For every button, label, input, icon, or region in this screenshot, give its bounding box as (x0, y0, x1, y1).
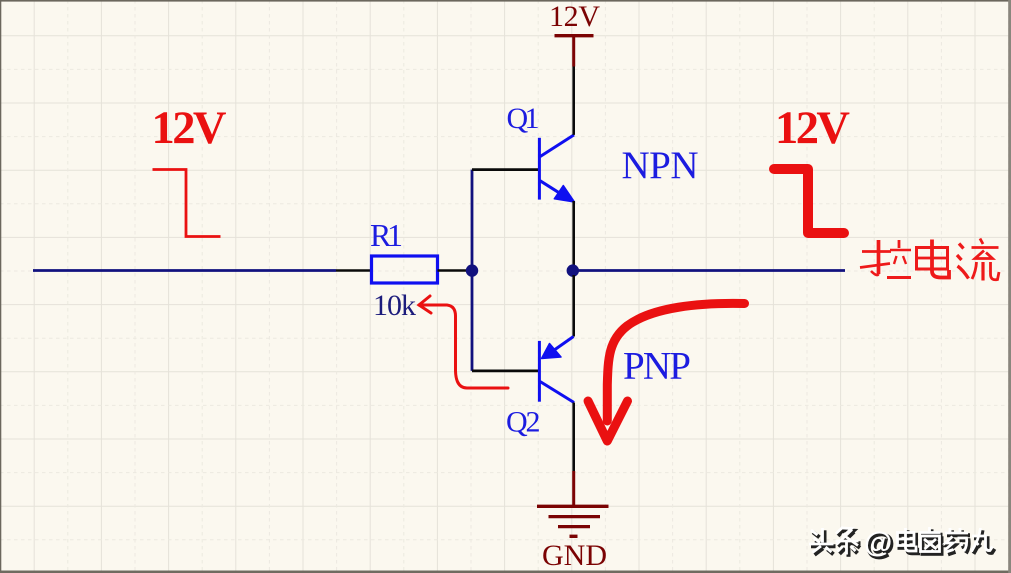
wire (336, 269, 371, 272)
wire (572, 275, 575, 337)
annotation text: 拉 (860, 240, 911, 278)
node A (base junction) (466, 264, 478, 276)
watermark: 丸 (974, 530, 995, 554)
wire (578, 269, 845, 272)
watermark: 头 (811, 530, 836, 555)
ground GND (537, 471, 609, 536)
watermark: 卤 (921, 529, 943, 554)
svg-text:Q1: Q1 (507, 102, 540, 135)
svg-text:10k: 10k (373, 289, 416, 322)
wire (472, 168, 539, 171)
annotation: output step waveform (thick) (774, 169, 844, 233)
resistor R1 (372, 256, 438, 283)
svg-text:PNP: PNP (623, 345, 691, 388)
sheet border right (1008, 0, 1011, 573)
transistor Q2 (539, 337, 574, 403)
annotation: input step waveform (153, 170, 221, 237)
wire (572, 67, 575, 135)
wire (33, 269, 336, 272)
annotation text: 电 (917, 240, 950, 278)
svg-text:Q2: Q2 (506, 406, 541, 439)
svg-text:R1: R1 (370, 217, 403, 253)
svg-text:12V: 12V (152, 103, 227, 154)
svg-text:GND: GND (542, 539, 607, 572)
sheet border bottom (0, 571, 1011, 573)
watermark: 电 (900, 530, 919, 553)
svg-text:NPN: NPN (622, 144, 699, 187)
svg-text:12V: 12V (549, 0, 600, 33)
wire (572, 403, 575, 472)
wire (472, 369, 539, 372)
annotation: thin arrow to 10k (419, 296, 508, 388)
sheet border top (0, 0, 1011, 2)
svg-text:12V: 12V (775, 103, 850, 154)
power 12V (572, 36, 575, 67)
watermark: 条 (838, 529, 861, 557)
sheet border left (0, 0, 1, 573)
svg-text:@: @ (864, 527, 892, 559)
wire (438, 269, 469, 272)
annotation: thick curved arrow (607, 303, 744, 421)
node B (output junction) (567, 264, 579, 276)
transistor Q1 (539, 135, 574, 200)
annotation text: 流 (957, 239, 999, 281)
watermark: 药 (947, 530, 970, 554)
wire (471, 170, 474, 371)
wire (572, 201, 575, 266)
